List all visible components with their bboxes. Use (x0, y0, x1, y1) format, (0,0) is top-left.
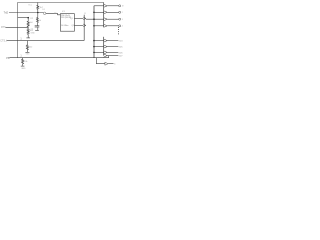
wire bottom rail (10, 57, 109, 59)
wire bus2 top to connector (94, 5, 104, 7)
resistor R2 chain B (37, 13, 39, 26)
svg-text:GND: GND (21, 68, 26, 70)
junction bus2 r3 (93, 18, 95, 20)
resistor R6 (26, 41, 28, 53)
wire C1 to gnd (37, 27, 39, 30)
wire arrow out (108, 63, 113, 65)
wire jumper out (86, 18, 104, 20)
wire to IC pin (46, 13, 61, 14)
svg-text:J1: J1 (84, 13, 86, 15)
node ellipsis dots (117, 27, 120, 34)
svg-text:D1: D1 (42, 9, 44, 11)
connector X2 body line (103, 37, 105, 56)
wire bus to chain A (18, 17, 29, 19)
wire rail stub up to X2-4 (108, 56, 110, 58)
wire branch g2r1 (94, 40, 104, 42)
wire IC pin to jumper pin1 (74, 17, 83, 19)
junction bus2 r4 (93, 25, 95, 27)
pin X2-4 (104, 54, 124, 57)
svg-text:Q2: Q2 (72, 25, 75, 27)
resistor R7 (22, 58, 24, 66)
junction bus2 g2r1 (93, 40, 95, 42)
resistor R1 (37, 3, 39, 13)
svg-text:10k: 10k (24, 61, 27, 63)
wire branch g2r2 (94, 46, 104, 48)
pin X2-2 (104, 45, 124, 48)
ground gnd D (21, 65, 25, 67)
pin X1-2 (104, 11, 123, 14)
resistor R3 (27, 18, 29, 28)
wire input2 (6, 27, 29, 29)
wire to arrow (96, 58, 105, 64)
wire branch g2r3 (94, 51, 104, 53)
wire input3 (7, 40, 85, 42)
svg-text:D0 GNm: D0 GNm (61, 25, 69, 27)
ground gnd C (25, 51, 29, 53)
wire branch r4 (94, 25, 104, 27)
svg-text:19: 19 (122, 6, 124, 8)
junction chainA top (27, 17, 29, 19)
svg-text:4: 4 (122, 26, 123, 28)
svg-text:PB: PB (6, 57, 10, 60)
resistor R4 (27, 28, 29, 38)
svg-text:2: 2 (122, 12, 123, 14)
ground gnd B (35, 29, 39, 31)
pin X2-3 (104, 51, 124, 54)
connector X1 body line (103, 3, 105, 28)
pin X1-1 (104, 4, 124, 7)
junction J1 (37, 12, 39, 14)
pin X1-3 (104, 18, 123, 21)
pin J2-1 chevron (83, 17, 86, 20)
wire VCC top rail (18, 3, 104, 58)
junction bus2 g2r2 (93, 46, 95, 48)
connector J2 body (83, 15, 85, 41)
svg-text:RTS: RTS (1, 26, 6, 29)
op-amp IC1 box (60, 14, 74, 32)
svg-text:3: 3 (122, 19, 123, 21)
svg-text:1k: 1k (39, 20, 41, 22)
svg-text:CTS_I: CTS_I (0, 40, 7, 43)
pin J2-2 chevron (83, 24, 86, 27)
svg-text:1k: 1k (54, 12, 56, 14)
pin X2-1 (104, 39, 124, 42)
diode D1 circle (43, 12, 46, 15)
arrow off-page (105, 62, 108, 65)
svg-text:TxD: TxD (4, 12, 9, 15)
wire IC pin to jumper pin2 (74, 24, 83, 26)
wire branch r2 (94, 11, 104, 13)
svg-text:Q1: Q1 (70, 18, 73, 20)
junction bus2 r2 (93, 12, 95, 14)
svg-text:GND: GND (31, 33, 36, 35)
wire bus2 vertical (93, 6, 95, 58)
capacitor C1 (35, 25, 40, 27)
junction bus2 g2r3 (93, 52, 95, 54)
wire input1 (9, 12, 43, 14)
pin X1-4 (104, 24, 123, 27)
ground gnd A (26, 37, 30, 39)
